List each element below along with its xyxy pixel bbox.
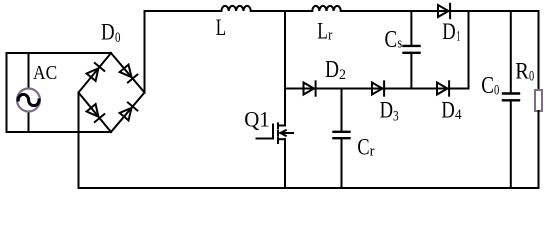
svg-text:0: 0: [115, 30, 121, 46]
svg-text:s: s: [397, 35, 402, 51]
wire bridge positive output (right corner up to top rail): [144, 11, 146, 93]
svg-text:3: 3: [393, 109, 399, 125]
wire Cs branch lower: [410, 53, 412, 89]
bridge diode bottom-left: [87, 104, 99, 117]
capacitor Cs: [404, 46, 420, 53]
wire node A vertical (between L and Lr down to Q1 drain): [284, 11, 286, 126]
AC source V1: [17, 89, 40, 112]
svg-text:D: D: [325, 57, 339, 83]
wire top rail: [145, 10, 539, 12]
wire R0 branch upper: [538, 11, 540, 90]
svg-text:C: C: [385, 27, 398, 53]
bridge diode top-right: [120, 65, 132, 78]
svg-text:0: 0: [529, 69, 534, 85]
svg-text:C: C: [481, 73, 494, 99]
wire left vertical rail: [6, 53, 8, 132]
svg-text:4: 4: [455, 107, 462, 123]
wire top-left rail to bridge top corner: [7, 52, 112, 54]
wire bottom rail: [79, 187, 539, 189]
svg-text:AC: AC: [33, 63, 57, 84]
svg-text:D: D: [442, 19, 455, 45]
bridge rectifier D0: diamond wires: [79, 53, 145, 132]
wire AC branch bottom: [28, 112, 30, 133]
wire Cr branch lower: [341, 138, 343, 188]
svg-text:2: 2: [339, 67, 346, 83]
svg-text:R: R: [515, 58, 529, 83]
wire C0 branch lower: [510, 100, 512, 188]
svg-text:Q1: Q1: [244, 108, 270, 132]
svg-text:C: C: [357, 135, 369, 161]
diode D2: [304, 83, 315, 95]
svg-text:D: D: [380, 98, 393, 124]
svg-text:0: 0: [494, 83, 499, 99]
wire R0 branch lower: [538, 111, 540, 188]
svg-text:r: r: [328, 27, 332, 43]
svg-text:L: L: [216, 15, 226, 40]
diode D4: [437, 83, 448, 95]
wire middle rail: [285, 88, 469, 90]
svg-text:L: L: [317, 19, 328, 44]
wire Q1 source to bottom rail: [284, 139, 286, 188]
svg-text:1: 1: [456, 29, 460, 45]
bridge diode top-left: [87, 68, 99, 81]
svg-text:D: D: [101, 20, 115, 45]
wire D1/D4 cathode vertical: [468, 11, 470, 89]
wire C0 branch upper: [510, 11, 512, 94]
wire Cr branch upper: [341, 89, 343, 132]
resistor R0: [535, 90, 542, 111]
capacitor C0: [503, 94, 519, 101]
wire Cs branch upper: [410, 11, 412, 46]
svg-text:D: D: [441, 98, 454, 124]
svg-text:r: r: [370, 143, 375, 159]
wire bridge negative output (left corner down to bottom rail): [78, 93, 80, 189]
inductor L: [221, 6, 250, 11]
wire bottom-left rail to bridge bottom corner: [7, 131, 112, 133]
bridge diode bottom-right: [120, 108, 132, 121]
diode D1: [438, 5, 449, 17]
wire AC branch top: [28, 53, 30, 89]
inductor Lr: [312, 6, 341, 11]
diode D3: [372, 83, 383, 95]
transistor Q1: [279, 125, 285, 127]
capacitor Cr: [334, 132, 350, 138]
